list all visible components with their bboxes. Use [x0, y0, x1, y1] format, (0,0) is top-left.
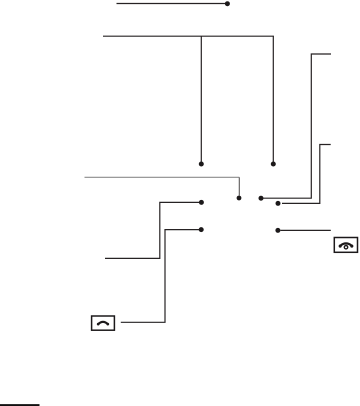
node F dot [199, 200, 204, 205]
phone icon left handset [97, 322, 109, 326]
phone icon right dial circle [344, 246, 347, 249]
wire right bracket 1 [264, 54, 332, 198]
wire gray elbow horizontal [85, 176, 240, 178]
node D dot [259, 196, 264, 201]
phone icon left box [92, 316, 115, 330]
node H dot [275, 228, 280, 233]
wire vertical drop 1 from line B [200, 36, 202, 161]
node A dot [225, 1, 230, 6]
wire to right phone [280, 229, 330, 231]
node E dot [276, 201, 281, 206]
wire to left phone [121, 230, 199, 323]
phone icon right box [334, 238, 357, 253]
wire vertical drop 2 from line B [272, 36, 274, 161]
node G dot [199, 227, 204, 232]
wire line B [103, 35, 274, 37]
wire right bracket 2 [282, 145, 331, 204]
wire top line A [117, 3, 228, 5]
wire bottom-left stub [0, 404, 40, 406]
phone icon right handset [339, 243, 354, 247]
node C dot [237, 196, 242, 201]
node B2 dot [271, 162, 276, 167]
node B1 dot [199, 162, 204, 167]
wire left Z elbow [105, 202, 199, 258]
wire gray elbow vertical [238, 177, 240, 195]
